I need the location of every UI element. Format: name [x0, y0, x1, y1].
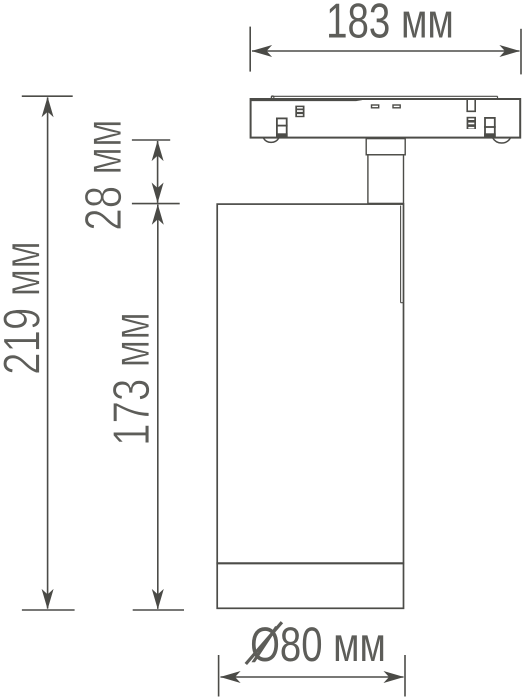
svg-text:219 мм: 219 мм — [0, 241, 52, 375]
svg-text:28 мм: 28 мм — [75, 119, 133, 230]
svg-text:Ø80 мм: Ø80 мм — [250, 618, 386, 672]
svg-text:173 мм: 173 мм — [103, 312, 161, 446]
svg-text:183 мм: 183 мм — [326, 0, 454, 48]
